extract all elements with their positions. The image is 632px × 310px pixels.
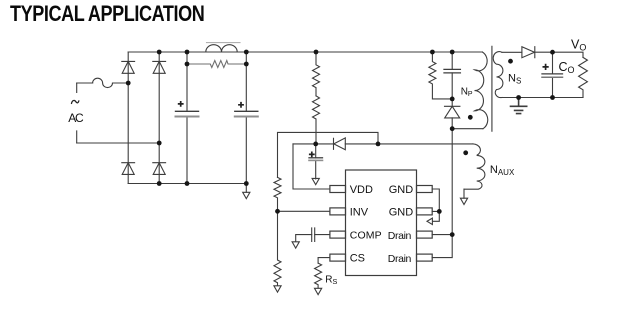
phasing dot Ns	[508, 59, 513, 64]
phasing dot Np	[468, 115, 473, 120]
ground arrow (aux)	[460, 198, 467, 204]
node: pi resistor right	[244, 62, 249, 67]
wire: secondary top to diode	[502, 51, 522, 53]
wire: negative rail bottom	[128, 184, 246, 193]
phasing dot Naux	[463, 150, 468, 155]
capacitor Co plates	[542, 73, 563, 75]
node: drain pins join	[450, 232, 455, 237]
node: pi right top	[244, 50, 249, 55]
svg-text:NAUX: NAUX	[490, 164, 515, 177]
wire: main DC bus top rail	[128, 51, 482, 53]
node: startup res top	[314, 50, 319, 55]
diode D2	[153, 61, 166, 73]
pin box GND1	[417, 186, 433, 193]
pin box Drain1	[417, 231, 433, 238]
capacitor C1 plates	[176, 110, 199, 112]
resistor R6 (Rs current sense)	[315, 263, 322, 288]
svg-text:Drain: Drain	[388, 230, 412, 242]
wire: VDD node horizontal	[293, 143, 334, 145]
plus Co	[543, 64, 549, 70]
capacitor C3 plates	[309, 157, 323, 159]
plus C3	[309, 152, 315, 158]
svg-text:CS: CS	[350, 253, 365, 265]
resistor R3 (startup lower)	[313, 96, 320, 144]
diode D7 (output)	[522, 47, 535, 58]
node: bottom rail col2	[157, 181, 162, 186]
capacitor C2 plates	[235, 110, 258, 112]
svg-text:COMP: COMP	[350, 230, 382, 242]
svg-text:CO: CO	[559, 60, 575, 75]
wire: primary bottom	[452, 128, 483, 130]
pin box Drain2	[417, 254, 433, 261]
pin box GND2	[417, 208, 433, 215]
capacitor C2 leads	[245, 52, 247, 184]
wire: clamp diode stems	[451, 99, 453, 129]
node: bottom rail c1	[185, 181, 190, 186]
node: vdd junction	[313, 142, 318, 147]
node: clamp C top	[450, 50, 455, 55]
svg-text:RS: RS	[325, 274, 337, 286]
resistor R4 (divider upper)	[274, 177, 281, 211]
ground arrow (divider)	[274, 286, 281, 292]
capacitor C5 plates	[444, 69, 460, 73]
node: pi left top	[185, 50, 190, 55]
IC U1 body	[346, 170, 417, 276]
wire: secondary bottom rail	[502, 97, 583, 99]
fuse F1	[93, 78, 113, 87]
diode D6 (clamp)	[445, 106, 460, 118]
wire: aux sense branch	[278, 132, 379, 177]
wire: comp net	[296, 235, 330, 242]
ground arrow (IC gnd, left pointing)	[427, 218, 432, 224]
node: clamp bottom	[450, 97, 455, 102]
node: AC hot junction	[126, 81, 131, 86]
wire: output node	[535, 52, 583, 57]
wire: aux feed to winding	[345, 143, 473, 145]
node: sec gnd rail	[516, 95, 521, 100]
node: AC neutral junction	[157, 141, 162, 146]
wire: AC neutral (bottom)	[77, 142, 160, 144]
earth ground (secondary)	[511, 98, 527, 114]
node: output vo	[550, 50, 555, 55]
pin box COMP	[330, 231, 346, 238]
svg-text:GND: GND	[389, 184, 414, 196]
node: co bottom	[550, 95, 555, 100]
ground arrow (comp)	[292, 242, 299, 248]
wire: vdd pin drop	[293, 144, 330, 189]
diode D5 (vdd rectifier)	[334, 138, 346, 150]
node: gnd pins join	[437, 209, 442, 214]
transformer aux Naux winding	[464, 144, 485, 189]
svg-text:VO: VO	[571, 37, 586, 52]
bridge column 1 wire	[127, 52, 129, 184]
capacitor C5 (clamp) leads	[451, 52, 453, 99]
wire: aux bottom to ground	[463, 189, 465, 198]
ground arrow (vdd cap)	[312, 178, 319, 184]
transformer secondary Ns winding	[493, 52, 503, 98]
capacitor C4 (comp) plates	[312, 228, 315, 242]
node: bottom rail gnd	[244, 181, 249, 186]
inductor L1 core bar	[207, 42, 241, 44]
resistor R5 (divider lower)	[274, 211, 281, 285]
ground arrow (Rs)	[315, 288, 322, 294]
capacitor C3 (vdd) leads	[315, 144, 317, 179]
resistor R2 (startup upper)	[313, 52, 320, 96]
pin box VDD	[330, 186, 346, 193]
resistor R1 (pi filter damper)	[187, 61, 246, 68]
label ~	[71, 100, 79, 104]
bridge column 2 wire	[158, 52, 160, 184]
node: aux sense tap	[376, 142, 381, 147]
wire: drain vertical to primary	[451, 129, 453, 235]
diode D3	[122, 163, 135, 175]
wire: drain pins join	[432, 235, 452, 258]
svg-text:Drain: Drain	[388, 253, 412, 265]
wire: gnd pins join	[432, 189, 439, 221]
capacitor Co leads	[552, 52, 554, 97]
pin box CS	[330, 254, 346, 261]
diode D4	[153, 163, 166, 175]
pin box INV	[330, 208, 346, 215]
node: inv divider tap	[275, 209, 280, 214]
resistor R8 (load)	[579, 57, 588, 97]
wire: AC hot (top) with fuse gap	[77, 82, 129, 84]
node: bridge out / col2 top	[157, 50, 162, 55]
wire: CS to Rs	[318, 258, 330, 264]
plus C1	[178, 101, 184, 107]
resistor R7 (clamp)	[429, 52, 452, 99]
svg-text:AC: AC	[68, 111, 84, 125]
node: primary bottom	[450, 126, 455, 131]
transformer core	[491, 47, 493, 132]
svg-text:VDD: VDD	[350, 184, 373, 196]
node: clamp R top	[430, 50, 435, 55]
diode D1	[122, 61, 135, 73]
capacitor C1 leads	[186, 52, 188, 184]
svg-text:NS: NS	[508, 73, 521, 86]
inductor L1	[206, 45, 237, 52]
transformer primary Np winding	[475, 52, 488, 129]
svg-text:INV: INV	[350, 206, 369, 218]
plus C2	[238, 102, 244, 108]
node: pi resistor left	[185, 62, 190, 67]
svg-text:NP: NP	[461, 87, 473, 99]
svg-text:GND: GND	[389, 206, 414, 218]
wire: INV pin	[278, 210, 330, 212]
ground arrow (bulk negative)	[243, 192, 250, 198]
title	[10, 1, 204, 27]
AC source left lead	[76, 83, 78, 143]
